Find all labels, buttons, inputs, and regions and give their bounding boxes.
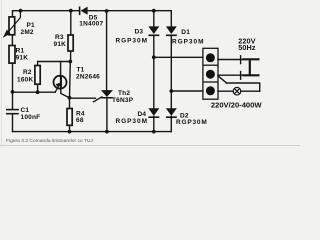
wire bottom rail [13, 131, 172, 133]
diode D4 RGP30M [148, 108, 159, 118]
wire lamp branch diagonal [218, 76, 227, 83]
wire C1 bottom lead [12, 114, 14, 131]
socket pin 2 [206, 70, 215, 79]
wire R4 top lead [69, 98, 71, 109]
wire B1 lead [61, 86, 70, 98]
wire R1 to emitter node [12, 63, 14, 92]
wire plug row2 [218, 74, 243, 76]
diode D3 RGP30M [148, 26, 159, 36]
wire R2 top to node B2 [38, 62, 71, 66]
wire D4 bottom lead [153, 116, 155, 131]
wire D3 top lead [153, 11, 155, 27]
svg-text:Figura 3.3 Comanda tiristoarel: Figura 3.3 Comanda tiristoarelor cu TUJ [6, 138, 93, 144]
svg-text:160K: 160K [17, 76, 33, 83]
potentiometer P1 body [9, 17, 15, 35]
lamp (load) [233, 87, 241, 95]
svg-text:91K: 91K [54, 41, 67, 48]
wire bypass B2-node to gate node [69, 62, 72, 98]
wire R3 top lead [70, 11, 72, 35]
svg-text:68: 68 [76, 117, 84, 124]
svg-text:100nF: 100nF [21, 114, 41, 121]
socket pin 3 [206, 86, 215, 95]
svg-text:R2: R2 [23, 69, 32, 76]
wire gate horizontal [70, 97, 96, 99]
svg-text:RGP30M: RGP30M [176, 119, 208, 126]
wire D2 bottom lead [170, 116, 172, 131]
wire R2 bottom lead [37, 84, 39, 92]
transistor T1 2N2646 (UJT) [54, 76, 67, 93]
diode D2 RGP30M [166, 108, 177, 118]
svg-text:2N2646: 2N2646 [76, 73, 100, 80]
wire D3-D4 column [153, 36, 155, 109]
wire D1-D2 column [170, 36, 172, 109]
wire R4 bottom lead [69, 125, 71, 131]
wire top-right corner down to D1 [170, 11, 172, 27]
wire Th2 cathode [106, 98, 108, 132]
diode D5 1N4007 (pointing left, cathode bar left) [79, 7, 88, 16]
wire lamp right [241, 90, 260, 92]
svg-text:T6N3P: T6N3P [112, 97, 134, 104]
wire lamp branch top [227, 83, 260, 91]
svg-text:RGP30M: RGP30M [116, 38, 148, 45]
wire gate diagonal [94, 97, 102, 102]
wire plug row1 [218, 59, 243, 61]
svg-text:91K: 91K [16, 54, 29, 61]
wire emitter horizontal [13, 91, 56, 93]
svg-text:220V/20-400W: 220V/20-400W [211, 101, 262, 110]
wire top rail left of D5 [21, 10, 80, 12]
svg-text:1N4007: 1N4007 [79, 20, 103, 27]
wire C1 top lead [12, 92, 14, 109]
wire Th2 anode [106, 11, 108, 90]
T1 emitter arrowhead [56, 82, 62, 87]
wire P1 top lead [13, 11, 21, 17]
wire B2 lead [60, 62, 62, 78]
capacitor C1 [6, 110, 19, 114]
socket pin 1 [206, 53, 215, 62]
svg-text:D1: D1 [181, 29, 190, 36]
svg-text:50Hz: 50Hz [238, 43, 256, 52]
wire top rail right of D5 [88, 10, 172, 12]
wire AC tap 1 to socket pin 1 [154, 56, 203, 58]
resistor R3 body [68, 35, 73, 51]
svg-text:RGP30M: RGP30M [172, 39, 204, 46]
wire P1 to R1 [11, 35, 13, 46]
thyristor Th2 T6N3P (triangle down + cathode bar + gate) [101, 90, 113, 98]
mains plug symbol [241, 55, 260, 80]
svg-text:D4: D4 [138, 111, 147, 118]
diode D1 RGP30M [166, 26, 177, 36]
wire lamp left [218, 90, 233, 92]
resistor R2 body [35, 66, 40, 85]
svg-text:T1: T1 [77, 66, 85, 73]
socket / connector body [203, 48, 218, 99]
junction node dots [11, 9, 174, 134]
faint page rule at bottom [0, 144, 300, 146]
wire AC tap 2 to socket pin 3 [171, 90, 203, 92]
resistor R4 body [67, 109, 72, 126]
svg-text:RGP30M: RGP30M [116, 118, 148, 125]
paper background [0, 0, 300, 148]
wire R3 bottom lead [70, 51, 72, 62]
svg-text:2M2: 2M2 [21, 29, 34, 36]
svg-text:C1: C1 [21, 107, 30, 114]
resistor R1 body [9, 46, 15, 64]
potentiometer P1 wiper arrow [4, 11, 20, 37]
svg-text:D3: D3 [135, 28, 144, 35]
faint page edge left [0, 0, 2, 148]
